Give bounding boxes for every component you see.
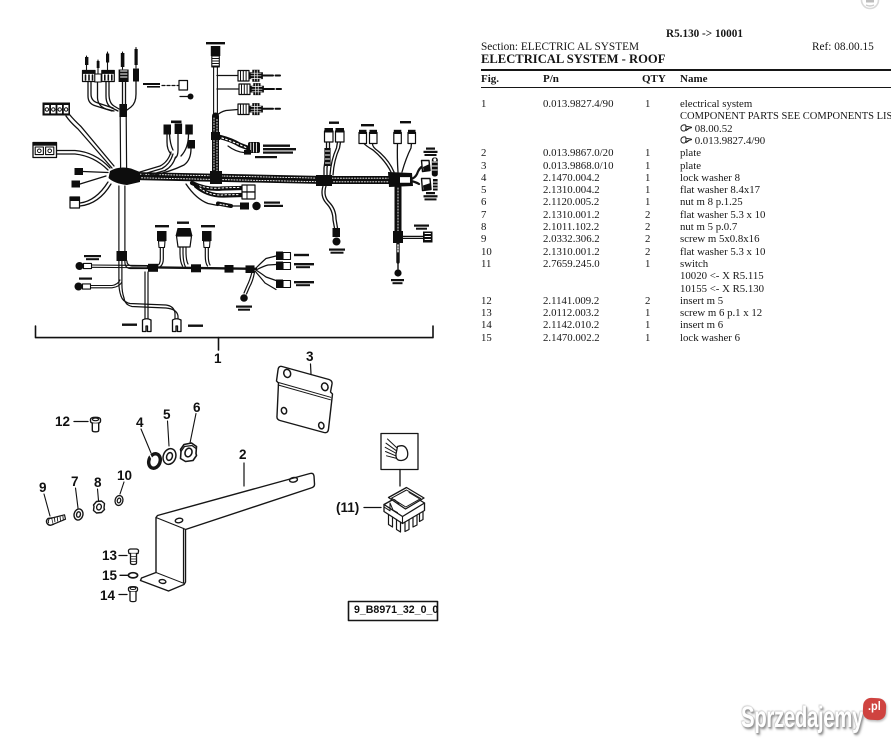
wire from V1 bottom to L: [119, 261, 148, 298]
watermark Sprzedajemy.pl: [741, 701, 863, 735]
F2 bundle down to hub: [140, 152, 171, 172]
connector F2-b: [175, 124, 183, 159]
wire F1-a: [88, 82, 112, 111]
square connector lower-left of hub: [70, 182, 111, 208]
lower branch L with bands: [148, 264, 256, 273]
ribbed connector row3: [238, 103, 280, 115]
washer 10: [114, 495, 124, 507]
connector R3: [422, 179, 432, 191]
inline connector at J3: [400, 177, 411, 184]
wire from 2-gang to hub: [57, 151, 110, 169]
wires down to fork connectors: [121, 272, 203, 332]
headlight icon: [396, 446, 408, 461]
small black connector F2-d: [150, 140, 195, 176]
fuse R2: [432, 158, 438, 177]
striped branch from V0 junction to round connector: [220, 137, 260, 155]
plate 3: [277, 366, 333, 432]
thin branch to small connector + eyelet: [186, 184, 283, 210]
connector E (narrow black): [133, 48, 139, 82]
labels: [424, 148, 438, 201]
wire F1-d: [122, 82, 124, 108]
leader line for (11): [364, 507, 381, 509]
screw 9: [46, 515, 65, 525]
leader 12 (dash): [74, 421, 88, 423]
fork connector FK2: [173, 319, 182, 332]
nut 8: [94, 501, 105, 513]
leader 6: [190, 414, 196, 444]
connector C (ribbed): [102, 52, 115, 82]
vertical trunk V0 (from top cluster down to T1): [210, 67, 222, 184]
label cluster right of striped branch: [255, 145, 296, 159]
connector A (ribbed): [83, 56, 96, 82]
vertical trunk V2 (down from J3): [393, 187, 403, 269]
leader 8: [98, 489, 99, 501]
leader 9: [44, 494, 50, 516]
branch wire at y75: [217, 75, 238, 77]
dashed stub + square connector left of V0: [143, 81, 188, 91]
small terminal connectors left of hub: [72, 168, 109, 188]
junction hub (big blob left): [109, 167, 141, 185]
F2 label bar: [171, 121, 182, 124]
switch icon box: [381, 434, 418, 470]
wire from 4-gang to hub: [66, 116, 112, 168]
wire F1-b: [98, 82, 115, 111]
junction J2: [316, 175, 332, 186]
insert 14: [129, 587, 138, 602]
connector F2-c: [181, 125, 193, 157]
three vertical connectors above L: [155, 225, 169, 267]
connector D (black block): [119, 52, 129, 82]
leader 14 (dash): [119, 594, 127, 596]
harness trunk T2 (horizontal main bundle right part): [324, 178, 400, 182]
junction J3: [388, 172, 413, 187]
4-gang connector block: [43, 103, 71, 116]
bracket 1: [36, 326, 434, 350]
eyelet terminal C1 with lead: [76, 255, 149, 270]
leader 13 (dash): [119, 555, 127, 557]
leader 15 (dash): [120, 574, 128, 576]
wire F1-e: [127, 81, 136, 110]
flat washer 5: [161, 447, 178, 466]
striped R4: [433, 179, 438, 191]
leader 4: [141, 429, 151, 453]
eyelet terminal left of V0: [180, 94, 194, 100]
connector B (small): [95, 60, 101, 82]
down wiggle wire to connector with eyelet: [322, 186, 345, 254]
top connector of V0: [206, 42, 225, 67]
V2 right branch to connector: [402, 225, 433, 243]
fork connector FK1: [143, 319, 152, 332]
eyelet terminal C2 with lead: [75, 278, 123, 291]
connector F2-a: [164, 125, 174, 155]
harness trunk T1 (horizontal main bundle): [132, 174, 324, 182]
drawing number box 9_B8971_32_0_0: [349, 602, 438, 621]
leader line for 2: [243, 463, 245, 486]
leader 5: [168, 421, 170, 446]
ribbed connector row1: [238, 70, 280, 82]
ring 15: [128, 573, 137, 578]
leader line for 3: [310, 364, 313, 374]
lock washer 4: [146, 452, 162, 470]
wire F1-c: [106, 82, 118, 111]
bracket 2: [141, 473, 315, 591]
switch 11: [384, 488, 425, 533]
branch wire rising to row3: [216, 110, 238, 117]
ribbed connector row2: [239, 83, 281, 95]
vertical trunk V1 lower (white sheath): [117, 186, 128, 261]
branch wire at y89: [217, 88, 239, 90]
label under V2 terminal: [391, 279, 404, 284]
fan connector 2: [276, 262, 283, 271]
nut 6: [181, 443, 197, 462]
terminal ring at bottom of V2: [394, 269, 401, 276]
leader 10: [120, 482, 124, 494]
L right end drop to eyelet: [236, 272, 255, 311]
washer 7: [73, 508, 84, 521]
vertical trunk V1 upper (white sheath): [119, 104, 127, 168]
screw 13: [128, 549, 138, 565]
rivet nut 12: [91, 417, 101, 432]
fan connector 3: [276, 280, 283, 289]
up wires to two connectors: [324, 122, 344, 176]
faint corner mark: [858, 0, 888, 12]
leader 7: [76, 488, 79, 508]
line from icon box to switch: [399, 470, 401, 487]
right fan from L: [255, 252, 314, 290]
fan connector 1: [276, 252, 283, 261]
2-gang connector block: [33, 143, 57, 158]
connector R1: [422, 161, 431, 172]
part number labels (bold sans): [214, 351, 222, 366]
